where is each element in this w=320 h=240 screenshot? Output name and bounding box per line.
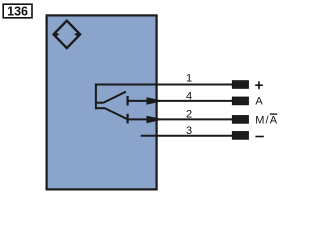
contact bar for output A-bar (126, 114, 128, 124)
diamond left inner triangle (54, 32, 59, 38)
switch common vertical line (95, 84, 97, 110)
arrow on wire 2 (147, 116, 164, 124)
wire 2 (output A-bar) (128, 118, 233, 120)
contact bar for output A (126, 96, 128, 106)
sensor body (blue rectangle) (47, 15, 157, 189)
label + (supply) (255, 81, 263, 89)
svg-text:A: A (255, 95, 263, 107)
svg-text:3: 3 (186, 125, 192, 137)
terminal pin 4 (232, 97, 248, 105)
svg-text:1: 1 (186, 72, 192, 84)
label minus (255, 136, 263, 138)
svg-text:A: A (270, 115, 278, 127)
svg-text:4: 4 (186, 90, 192, 102)
NC switch lever (closed, output A-bar) (104, 108, 127, 119)
proximity sensor symbol (diamond) (54, 21, 81, 48)
figure number box 136 (3, 4, 32, 18)
svg-text:M: M (255, 115, 264, 127)
arrow on wire 4 (147, 97, 164, 105)
overline of A in M/A-bar (270, 113, 277, 115)
svg-text:136: 136 (7, 5, 28, 19)
svg-text:2: 2 (186, 108, 192, 120)
diamond right inner triangle (74, 32, 79, 38)
wire 4 (output A) (128, 100, 233, 102)
terminal pin 2 (232, 116, 248, 124)
wire 3 (0 V) (141, 135, 233, 137)
terminal pin 1 (232, 81, 248, 89)
stub to NO contact (95, 102, 103, 104)
terminal pin 3 (232, 132, 248, 140)
NO switch lever (open, output A) (103, 92, 126, 103)
stub to NC contact (95, 107, 105, 109)
wire 1 (+ supply, top line of switch bracket) (95, 84, 232, 86)
